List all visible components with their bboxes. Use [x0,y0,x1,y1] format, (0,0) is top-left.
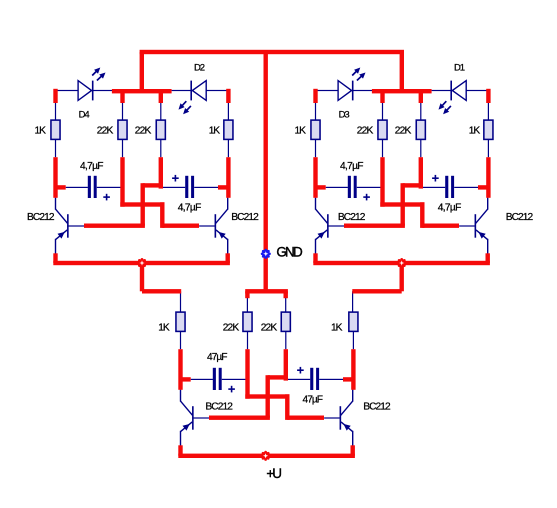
wire: LED D4 anode lead [56,90,79,91]
wire: C5 right lead [222,379,248,380]
wire: C4 left lead [421,187,445,188]
wire: right supply elbow [352,263,404,294]
label Q3 BC212 [338,212,366,223]
wire: Q3 base cross link [344,183,421,228]
wire: Q6 base cross link [245,394,324,420]
label C3 polarity + [363,194,370,201]
svg-text:BC212: BC212 [506,212,534,223]
wire: R10 lower lead [247,331,248,349]
svg-text:D3: D3 [339,110,350,121]
wire: collector column Q3 [313,157,317,198]
label Q2 BC212 [231,212,259,223]
wire: R7 lower lead [420,139,421,157]
svg-text:D4: D4 [79,110,90,121]
label C1 value 4,7µF [80,161,104,172]
wire: collector column Q5 [178,349,182,390]
wire: R6 lower lead [382,139,383,157]
svg-text:BC212: BC212 [205,402,233,413]
label R10 value 22K [223,323,240,334]
label +U [266,466,282,481]
wire: Q2 emitter stub [226,253,230,263]
transistor Q4 BC212 [459,198,488,254]
label R3 value 22K [135,125,152,136]
wire: R10 top stub [245,291,249,298]
label R5 value 1K [295,125,307,136]
wire: Q2 base cross link [120,202,199,228]
wire: R1 lower lead [55,139,56,157]
resistor R10 22K [243,312,252,331]
label Q1 BC212 [27,212,55,223]
label Q6 BC212 [363,401,391,412]
svg-text:4,7µF: 4,7µF [80,161,104,172]
resistor R8 1K [484,120,493,139]
label C3 value 4,7µF [340,161,364,172]
wire: emitter rail [178,454,355,458]
wire: R2 lower lead [122,139,123,157]
wire: collector A top stub [53,89,57,103]
svg-text:1K: 1K [295,125,307,136]
label GND [276,245,303,260]
capacitor C3 4,7µF [348,176,357,198]
wire: collector B top lead [488,103,489,120]
wire: GND top rail [140,50,404,54]
resistor R3 22K [156,120,165,139]
label Q5 BC212 [205,402,233,413]
wire: C6 right lead [319,379,343,380]
wire: C6 left lead [286,379,310,380]
svg-text:BC212: BC212 [363,401,391,412]
wire: bias A top stub [380,91,384,103]
svg-text:D2: D2 [194,62,205,73]
label D1 [454,62,465,73]
wire: LED D3 cathode lead [353,90,372,91]
LED D4 [78,68,105,101]
label C5 polarity + [228,386,235,393]
wire: R3 lower lead [160,139,161,157]
svg-text:22K: 22K [223,323,240,334]
wire: bias B top lead [420,103,421,120]
wire: collector column Q2 [226,157,230,198]
junction on left emitter rail [137,258,147,268]
wire: Q5 emitter stub [178,445,182,456]
label C6 polarity + [297,367,304,374]
wire: bias A top lead [122,103,123,120]
supply node +U junction [261,451,271,461]
label C4 polarity + [432,175,439,182]
wire: Q1 base cross link [84,183,161,228]
wire: R11 top lead [285,298,286,312]
wire: collector A top lead [315,103,316,120]
svg-text:4,7µF: 4,7µF [438,202,462,213]
capacitor C5 47µF [213,368,222,390]
svg-text:1K: 1K [158,322,170,333]
transistor Q1 BC212 [55,198,84,254]
label R2 value 22K [97,125,114,136]
LED D2 [179,81,207,115]
svg-text:47µF: 47µF [303,395,324,406]
wire: C2 right tick [218,185,228,189]
wire: bias column R10 [245,349,249,399]
svg-text:22K: 22K [261,323,278,334]
resistor R1 1K [51,120,60,139]
wire: Q1 emitter stub [53,253,57,263]
svg-text:22K: 22K [357,125,374,136]
wire: R4 lower lead [228,139,229,157]
wire: C1 left lead [66,187,88,188]
wire: bias B top stub [159,91,163,103]
svg-text:4,7µF: 4,7µF [340,161,364,172]
wire: bias column R11 [284,349,288,380]
wire: emitter rail [53,261,230,265]
resistor R4 1K [224,120,233,139]
label C2 value 4,7µF [178,202,202,213]
resistor R2 22K [118,120,127,139]
ground node GND [261,249,271,259]
wire: LED D2 anode lead [206,90,228,91]
label C4 value 4,7µF [438,202,462,213]
svg-text:BC212: BC212 [231,212,259,223]
wire: collector column Q1 [53,157,57,198]
wire: Q5 base cross link [209,375,286,420]
label D4 [79,110,90,121]
svg-text:+U: +U [266,466,282,481]
wire: C3 left lead [326,187,348,188]
wire: C5 left tick [181,377,191,381]
wire: Q6 emitter stub [351,445,355,456]
label C2 polarity + [172,175,179,182]
svg-text:22K: 22K [395,125,412,136]
svg-text:22K: 22K [97,125,114,136]
wire: C1 right lead [97,187,123,188]
wire: C6 right tick [343,377,353,381]
svg-text:1K: 1K [469,125,481,136]
label C1 polarity + [103,194,110,201]
wire: collector A top stub [313,89,317,103]
wire: Q4 emitter stub [486,253,490,263]
svg-text:1K: 1K [35,125,47,136]
wire: bias column R6 [380,157,384,207]
wire: C4 right tick [478,185,488,189]
wire: C5 left lead [191,379,213,380]
wire: bias column R3 [159,157,163,188]
transistor Q3 BC212 [315,198,344,254]
svg-text:22K: 22K [135,125,152,136]
wire: R12 top lead [352,291,353,312]
wire: C1 left tick [56,185,66,189]
svg-text:47µF: 47µF [207,352,228,363]
wire: LED D4 cathode lead [93,90,112,91]
resistor R12 1K [349,312,358,331]
transistor Q6 BC212 [324,390,353,446]
label R1 value 1K [35,125,47,136]
svg-text:4,7µF: 4,7µF [178,202,202,213]
wire: R5 lower lead [315,139,316,157]
capacitor C1 4,7µF [88,176,97,198]
label R4 value 1K [209,125,221,136]
wire: Q3 emitter stub [313,253,317,263]
wire: collector B top lead [228,103,229,120]
wire: collector B top stub [226,89,230,103]
wire: left supply elbow [140,263,181,294]
svg-text:D1: D1 [454,62,465,73]
wire: LED D3 anode lead [316,90,339,91]
resistor R9 1K [176,312,185,331]
svg-text:GND: GND [276,245,303,260]
label R8 value 1K [469,125,481,136]
label Q4 BC212 [506,212,534,223]
svg-text:BC212: BC212 [27,212,55,223]
wire: R9 top lead [180,291,181,312]
resistor R11 22K [281,312,290,331]
capacitor C2 4,7µF [185,176,194,198]
wire: collector A top lead [55,103,56,120]
wire: C2 left lead [161,187,185,188]
resistor R7 22K [416,120,425,139]
wire: bias column R2 [120,157,124,207]
label R7 value 22K [395,125,412,136]
label D2 [194,62,205,73]
wire: bias A top lead [382,103,383,120]
wire: collector column Q6 [351,349,355,390]
wire: Q4 base cross link [380,202,459,228]
wire: bias column R7 [419,157,423,188]
transistor Q5 BC212 [180,390,209,446]
wire: R9 lower lead [180,331,181,349]
svg-text:1K: 1K [331,322,343,333]
wire: LED D2 cathode lead [172,90,192,91]
wire: LED D1 cathode lead [432,90,452,91]
LED D3 [338,68,365,101]
wire: GND spur bar [372,89,432,93]
transistor Q2 BC212 [199,198,228,254]
wire: GND spur bar [112,89,172,93]
wire: GND feed drop right [400,52,404,91]
wire: R12 lower lead [353,331,354,349]
wire: R8 lower lead [488,139,489,157]
label D3 [339,110,350,121]
wire: R11 lower lead [285,331,286,349]
wire: R10 top lead [247,298,248,312]
wire: bias B top stub [419,91,423,103]
label R6 value 22K [357,125,374,136]
label C6 value 47µF [303,395,324,406]
capacitor C4 4,7µF [445,176,454,198]
wire: C3 right lead [357,187,383,188]
label R12 value 1K [331,322,343,333]
wire: emitter rail [313,261,490,265]
wire: R11 top stub [284,291,288,298]
wire: bias B top lead [160,103,161,120]
wire: collector column Q4 [486,157,490,198]
svg-text:BC212: BC212 [338,212,366,223]
wire: GND bottom bar [245,289,288,293]
LED D1 [439,81,467,115]
resistor R6 22K [378,120,387,139]
svg-text:1K: 1K [209,125,221,136]
wire: GND feed drop left [140,52,144,91]
wire: C2 right lead [194,187,218,188]
wire: GND center vertical [264,52,268,291]
label R11 value 22K [261,323,278,334]
wire: collector B top stub [486,89,490,103]
resistor R5 1K [311,120,320,139]
wire: LED D1 anode lead [466,90,488,91]
wire: C3 left tick [316,185,326,189]
label C5 value 47µF [207,352,228,363]
wire: C4 right lead [454,187,478,188]
capacitor C6 47µF [310,368,319,390]
label R9 value 1K [158,322,170,333]
wire: bias A top stub [120,91,124,103]
junction on right emitter rail [397,258,407,268]
